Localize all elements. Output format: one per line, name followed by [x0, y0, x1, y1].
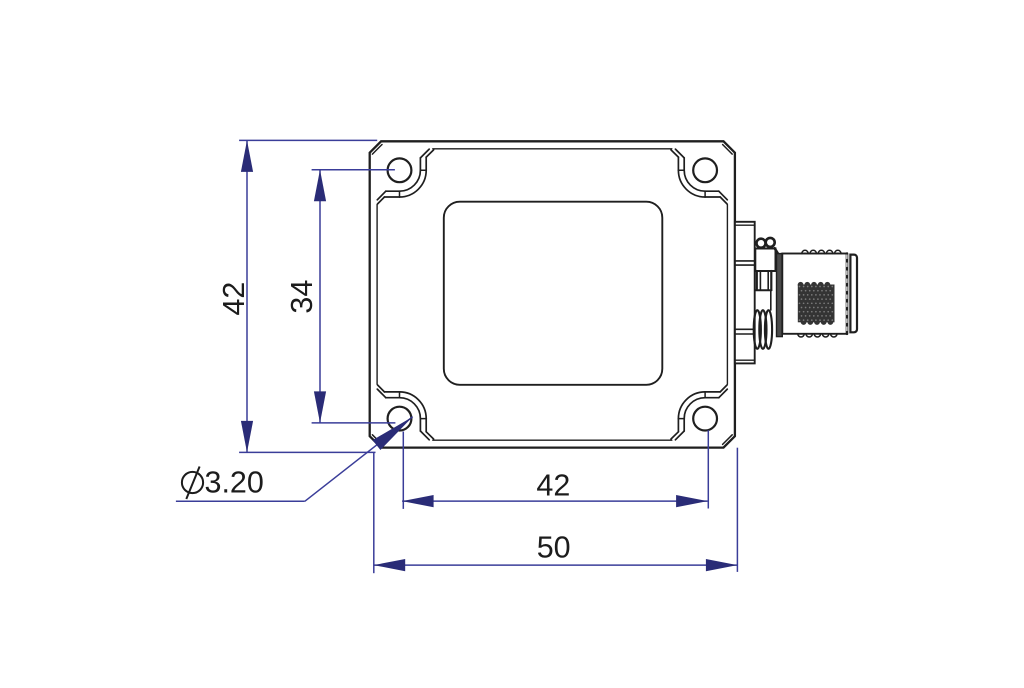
svg-text:3.20: 3.20 — [205, 466, 264, 500]
extension line left for 50 — [373, 453, 375, 574]
extension line right for 42 width — [707, 430, 709, 508]
extension line right for 50 — [736, 448, 738, 572]
svg-text:50: 50 — [537, 531, 571, 565]
dimension line 42 width — [402, 500, 707, 502]
svg-text:42: 42 — [217, 282, 251, 316]
diameter symbol — [182, 467, 203, 500]
corner boss top-right with hole — [671, 145, 732, 204]
leader arrowhead — [373, 417, 413, 450]
body knurl bumps bottom — [798, 334, 804, 337]
arrowheads 42 height — [241, 140, 253, 172]
extension line left for 42 width — [402, 432, 404, 509]
corner boss bottom-left with hole — [372, 385, 433, 444]
flange shell silhouette lines — [735, 260, 755, 262]
body right edge dashes — [846, 255, 848, 333]
dimension line 34 — [319, 170, 321, 423]
connector mounting flange — [735, 222, 755, 364]
knurl texture patch — [798, 282, 835, 325]
extension line top for 42 height — [239, 139, 377, 141]
wall inner line bottom — [433, 439, 672, 441]
wall inner line top — [433, 148, 672, 150]
mating end cap — [850, 255, 857, 333]
leader line for hole callout — [176, 500, 305, 502]
svg-text:42: 42 — [536, 469, 570, 503]
lock washer knurled ring (edge) — [777, 254, 783, 337]
corner boss bottom-right with hole — [671, 385, 732, 444]
thread ellipses — [754, 310, 761, 349]
extension line bottom for 34 — [312, 422, 396, 424]
jam nut bumps — [757, 239, 766, 248]
corner boss top-left with hole — [372, 145, 433, 204]
enclosure outer outline — [370, 141, 735, 447]
nut lower flats — [756, 271, 758, 290]
wall inner line right — [726, 205, 728, 385]
svg-text:34: 34 — [285, 280, 319, 314]
arrowheads 42 width — [402, 495, 434, 507]
extension line bottom for 42 height — [239, 451, 375, 453]
connector body — [782, 254, 847, 334]
jam nut body — [755, 249, 775, 272]
dimension line 42 height — [246, 140, 248, 452]
wall inner line left — [376, 205, 378, 385]
dimension line 50 — [374, 564, 738, 566]
arrowheads 34 — [314, 170, 326, 202]
lid pocket rounded rectangle — [444, 202, 663, 385]
arrowheads 50 — [374, 559, 406, 571]
extension line top for 34 — [312, 169, 395, 171]
body knurl bumps top — [802, 250, 808, 253]
